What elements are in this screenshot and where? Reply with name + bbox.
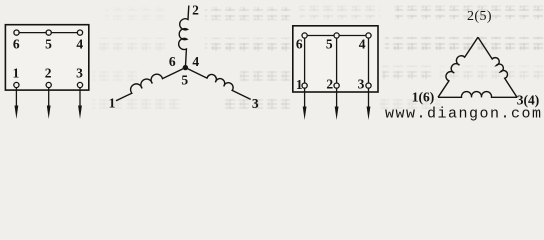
svg-text:2: 2 — [45, 66, 52, 81]
faint watermark text rows — [92, 6, 544, 112]
terminal 2 — [45, 66, 52, 88]
svg-text:4: 4 — [192, 54, 199, 69]
svg-text:3: 3 — [76, 66, 83, 81]
svg-text:www.diangon.com: www.diangon.com — [385, 106, 543, 123]
winding phase 1 coil (star left) — [116, 68, 185, 101]
terminal 6 (delta box) — [296, 33, 307, 52]
winding phase 2 coil (star top) — [179, 6, 189, 68]
link 5-2 — [336, 36, 338, 84]
terminal 1 (delta box) — [296, 77, 307, 92]
terminal 5 (delta box) — [326, 33, 339, 52]
delta winding 2-3 (right side) — [478, 37, 517, 97]
svg-text:1: 1 — [13, 66, 20, 81]
supply lead arrow L1 (delta) — [303, 88, 307, 120]
terminal 4 — [76, 30, 83, 52]
supply lead arrow L2 — [47, 88, 51, 119]
terminal 1 — [13, 66, 20, 88]
svg-text:3: 3 — [358, 76, 365, 91]
terminal box TB2 (delta connection) — [293, 26, 378, 92]
svg-text:2: 2 — [326, 76, 333, 91]
svg-text:1(6): 1(6) — [412, 90, 435, 105]
svg-text:5: 5 — [181, 73, 188, 88]
delta winding 3-1 (bottom side) — [438, 92, 517, 98]
terminal 5 — [45, 30, 52, 52]
star point node — [183, 65, 188, 70]
terminal 6 — [13, 30, 20, 52]
terminal 2 (delta box) — [326, 76, 339, 91]
supply lead arrow L3 (delta) — [367, 88, 371, 120]
supply lead arrow L1 — [15, 88, 19, 119]
svg-text:4: 4 — [76, 37, 83, 52]
delta winding 1-2 (left side) — [438, 37, 478, 97]
svg-text:6: 6 — [169, 54, 176, 69]
link 6-1 — [304, 36, 306, 84]
terminal 3 — [76, 66, 83, 88]
link 4-3 — [368, 36, 370, 84]
svg-text:6: 6 — [296, 37, 303, 52]
background paper — [0, 0, 544, 124]
supply lead arrow L3 — [78, 88, 82, 119]
top bar 6-5-4 — [305, 35, 369, 37]
supply lead arrow L2 (delta) — [335, 88, 339, 120]
svg-text:3: 3 — [252, 96, 259, 111]
svg-text:6: 6 — [13, 37, 20, 52]
terminal box TB1 (star connection) — [5, 25, 88, 90]
svg-text:5: 5 — [45, 37, 52, 52]
svg-text:2(5): 2(5) — [467, 9, 492, 24]
terminal 3 (delta box) — [358, 76, 371, 91]
terminal 4 (delta box) — [359, 33, 371, 52]
svg-text:1: 1 — [109, 96, 116, 111]
shorting bar 6-5-4 — [17, 32, 81, 34]
svg-text:2: 2 — [192, 3, 199, 18]
winding phase 3 coil (star right) — [185, 68, 250, 100]
svg-text:4: 4 — [359, 37, 366, 52]
svg-text:5: 5 — [326, 37, 333, 52]
